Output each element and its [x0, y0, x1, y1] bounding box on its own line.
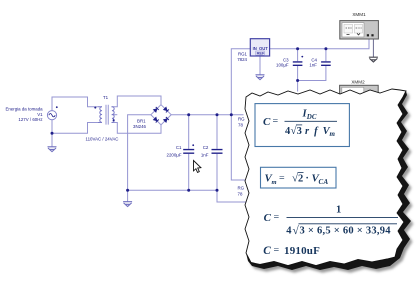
svg-text:=: =: [274, 212, 280, 223]
svg-text:m: m: [330, 130, 336, 138]
node C2 top: [216, 113, 219, 116]
node C3 top: [296, 47, 299, 50]
svg-text:√: √: [293, 224, 300, 237]
svg-text:·: ·: [306, 173, 309, 184]
wire secondary center tap stub: [112, 114, 118, 116]
svg-text:3 × 6,5 × 60 × 33,94: 3 × 6,5 × 60 × 33,94: [300, 226, 392, 237]
wire V1 bottom to transformer primary bottom: [52, 120, 98, 134]
svg-text:78: 78: [238, 192, 243, 197]
svg-text:C1: C1: [176, 145, 182, 150]
capacitor C3: [293, 62, 303, 65]
svg-text:=: =: [279, 173, 285, 184]
formula 3: C = 1 / (4 sqrt(3 x 6,5 x 60 x 33,94)): [264, 205, 398, 238]
wire C1 top: [188, 115, 190, 149]
svg-text:1nF: 1nF: [201, 152, 209, 157]
svg-text:REF: REF: [257, 51, 265, 56]
wire secondary top to bridge top vertex: [112, 96, 162, 107]
wire bridge left vertex down to ground rail: [128, 115, 151, 191]
paper torn black band: [245, 89, 411, 270]
node C1 bottom: [187, 189, 190, 192]
svg-text:C: C: [264, 212, 272, 224]
bridge rectifier BR1: [151, 105, 171, 125]
diode D2 top-right: [163, 107, 169, 113]
diode D1 top-left: [153, 107, 159, 113]
svg-text:78: 78: [238, 123, 243, 128]
wire C3 top: [297, 49, 299, 61]
node C2 bottom: [216, 189, 219, 192]
node C1 top: [187, 113, 190, 116]
svg-text:7824: 7824: [237, 57, 247, 62]
wire RG1 REF ground stem: [259, 56, 261, 75]
wire V1 top to transformer primary top: [52, 97, 98, 111]
svg-text:BR1: BR1: [137, 119, 146, 124]
capacitor C1: [183, 150, 194, 154]
svg-text:CA: CA: [319, 178, 329, 186]
wire mid ground stem: [127, 190, 129, 201]
wire dropper to hidden RG3: [231, 115, 246, 180]
wire riser to RG1 IN: [231, 49, 250, 115]
svg-text:110VAC / 24VAC: 110VAC / 24VAC: [86, 137, 119, 142]
svg-text:C: C: [263, 116, 271, 128]
wire secondary bottom to bridge bottom vertex: [112, 123, 162, 134]
wire C1 bottom: [188, 154, 190, 190]
formula box 1: C = Idc / (4 sqrt3 r f Vm): [255, 104, 349, 147]
node V1 bottom junction: [51, 132, 54, 135]
svg-text:3N246: 3N246: [133, 124, 146, 129]
svg-text:1: 1: [336, 205, 341, 216]
wire C2 bottom: [216, 154, 218, 190]
svg-text:XMM1: XMM1: [352, 12, 366, 17]
node C4 top: [324, 47, 327, 50]
svg-text:3: 3: [297, 126, 302, 137]
ground V1: [48, 147, 57, 152]
svg-text:RG: RG: [238, 186, 245, 191]
ground mid rail: [123, 202, 132, 207]
svg-text:2: 2: [298, 174, 303, 185]
node C3 bottom: [296, 79, 299, 82]
svg-text:C2: C2: [203, 145, 209, 150]
svg-text:C: C: [263, 245, 271, 257]
circuit text labels: [5, 51, 317, 157]
formula 4: C = 1910uF: [263, 245, 320, 257]
diode D4 bottom-right: [163, 117, 169, 123]
svg-text:m: m: [272, 179, 277, 186]
svg-text:T1: T1: [103, 95, 109, 100]
svg-text:r f V: r f V: [305, 126, 331, 137]
mouse cursor: [194, 161, 201, 173]
svg-text:XMM2: XMM2: [351, 80, 365, 85]
svg-text:4: 4: [286, 226, 292, 237]
wire C4 top: [325, 49, 327, 61]
source V1: [47, 106, 57, 120]
node ground rail left: [126, 189, 129, 192]
capacitor C4: [321, 62, 331, 65]
svg-text:1910uF: 1910uF: [284, 245, 320, 257]
wire V1 ground stem: [51, 133, 53, 146]
svg-text:127V / 60Hz: 127V / 60Hz: [18, 117, 42, 122]
svg-text:DC: DC: [306, 113, 317, 121]
diode D3 bottom-left: [153, 117, 159, 123]
paper body: [245, 89, 406, 266]
wire RG1 OUT rail to XMM1: [270, 39, 369, 49]
svg-text:RG1: RG1: [238, 51, 248, 56]
wire C4 bottom to C3 bottom: [298, 66, 326, 81]
svg-text:2200µF: 2200µF: [167, 152, 182, 157]
node regulator riser junction: [230, 113, 233, 116]
formula box 2: Vm = sqrt2 . Vca: [261, 167, 337, 188]
transformer T1: [94, 105, 114, 125]
svg-text:=: =: [274, 245, 280, 256]
svg-text:100µF: 100µF: [276, 62, 289, 67]
ground RG1 REF: [256, 75, 265, 80]
wire bottom ground rail: [128, 190, 246, 202]
ground XMM1: [369, 57, 378, 62]
svg-text:1nF: 1nF: [309, 62, 317, 67]
multimeter XMM1: [340, 21, 379, 57]
paper shadow: [248, 92, 414, 273]
multimeter XMM2 (mostly hidden behind note): [340, 85, 379, 103]
wire C2 top: [216, 115, 218, 149]
svg-text:Energia da tomada: Energia da tomada: [5, 106, 43, 111]
label hidden RG2 7812: [238, 117, 246, 197]
svg-text:=: =: [273, 116, 279, 127]
wire top DC rail from bridge right vertex: [171, 114, 243, 116]
svg-text:RG: RG: [238, 117, 245, 122]
capacitor C2: [212, 150, 223, 154]
wire C3 bottom going behind paper: [297, 66, 299, 92]
regulator RG1 7824: [250, 39, 269, 56]
